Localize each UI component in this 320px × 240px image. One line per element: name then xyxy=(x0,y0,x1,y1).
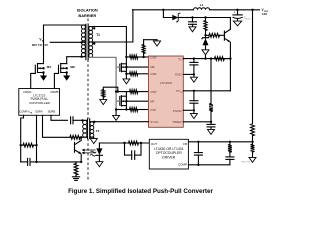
svg-text:SYNC: SYNC xyxy=(150,120,159,124)
transformer T1 core xyxy=(85,24,87,59)
svg-text:T1: T1 xyxy=(96,33,100,37)
ground PGND pin (secondary) xyxy=(193,110,195,113)
wire PGND xyxy=(183,109,194,111)
resistor TIMER xyxy=(210,59,212,104)
wire VIN to T1 center tap xyxy=(50,41,85,43)
svg-text:TIMER: TIMER xyxy=(172,120,182,124)
svg-text:COMP: COMP xyxy=(178,163,187,167)
inductor L1 xyxy=(194,8,210,10)
wire T1 sec bottom (gray) xyxy=(89,57,116,109)
wire T1 sec center tap to VOUT rail xyxy=(89,10,133,42)
svg-text:DRVB: DRVB xyxy=(51,90,59,94)
ground MB source (primary) xyxy=(66,74,68,77)
resistor VCC-PVCC xyxy=(215,57,225,61)
resistor CSE+ pullup xyxy=(143,54,145,58)
svg-text:+: + xyxy=(233,11,235,15)
transistor ME xyxy=(125,57,127,74)
svg-text:FB: FB xyxy=(183,142,187,146)
wire COMP out xyxy=(188,164,230,166)
svg-text:3901 F01: 3901 F01 xyxy=(241,161,251,163)
wire bias supply rail xyxy=(193,17,231,19)
resistor opto emitter xyxy=(75,162,77,164)
wire VOUT to divider xyxy=(252,10,254,124)
transistor MA xyxy=(38,63,44,65)
T2 phasing dots xyxy=(81,119,83,121)
svg-text:SDRA: SDRA xyxy=(35,110,43,114)
zener diode D2 xyxy=(203,37,208,39)
wire comp to opto emitter xyxy=(37,161,82,163)
resistor FB-COMP RC xyxy=(229,142,231,145)
resistor divider top xyxy=(251,124,255,136)
svg-text:12V: 12V xyxy=(262,12,267,16)
ground COUT (secondary) xyxy=(233,21,241,26)
wire opto LED to OUT xyxy=(99,142,149,144)
isolation barrier break marks xyxy=(91,151,97,153)
wire SYNC xyxy=(91,121,149,123)
svg-text:L1: L1 xyxy=(200,3,204,7)
transformer T1 secondary winding xyxy=(89,27,93,31)
wire SDRB to T2 xyxy=(51,115,68,120)
wire T1 primary bottom to MB drain xyxy=(67,57,85,64)
wire SDRA to T2 xyxy=(43,115,70,137)
svg-text:T2: T2 xyxy=(96,129,100,133)
wire CSE+ sense xyxy=(126,56,129,58)
op-amp U3 LT4430 box xyxy=(149,139,188,169)
ground MA source (primary) xyxy=(43,74,45,77)
svg-text:ISOLATION: ISOLATION xyxy=(77,7,98,12)
wire MB gate to DRVB xyxy=(54,73,58,88)
svg-text:ME: ME xyxy=(150,65,155,69)
op-amp U2 LTC3723 box xyxy=(19,89,60,116)
capacitor OUT parallel xyxy=(124,143,126,155)
node zener junction xyxy=(204,34,206,36)
capacitor PVCC bypass xyxy=(193,91,195,101)
ground TIMER cap (secondary) xyxy=(208,129,215,134)
wire CSF+ sense xyxy=(116,91,129,93)
wire VFB pin xyxy=(36,115,38,162)
svg-text:CC: CC xyxy=(180,92,184,94)
ground divider (secondary) xyxy=(249,157,256,162)
ground GND pin (secondary) xyxy=(193,74,195,77)
diode D3 opto LED xyxy=(98,143,100,148)
wire FB xyxy=(188,141,252,143)
opto light arrows xyxy=(82,149,95,151)
wire CSF- sense xyxy=(116,109,129,111)
svg-text:OPTOCOUPLER: OPTOCOUPLER xyxy=(156,151,182,155)
ground T2 (secondary) xyxy=(90,139,97,144)
svg-text:Figure 1. Simplified Isolated: Figure 1. Simplified Isolated Push-Pull … xyxy=(68,188,213,195)
wire MF gate from chip xyxy=(126,100,148,102)
svg-text:LT4430 OR LT1431: LT4430 OR LT1431 xyxy=(154,147,184,151)
ground CSE+ arrow (secondary) xyxy=(156,40,158,42)
svg-text:PGND: PGND xyxy=(173,109,183,113)
svg-text:OUT: OUT xyxy=(246,19,251,21)
transistor MB xyxy=(61,63,67,65)
transformer T2 secondary winding xyxy=(90,122,94,126)
ground opto LED (secondary) xyxy=(96,162,103,167)
wire CSE- sense xyxy=(126,73,129,75)
wire PVCC rail xyxy=(183,90,230,92)
svg-text:BARRIER: BARRIER xyxy=(78,13,96,18)
capacitor bias filter xyxy=(192,18,194,22)
op-amp U1 LTC3901 box xyxy=(149,56,184,127)
svg-text:CONTROLLER: CONTROLLER xyxy=(29,101,51,105)
resistor OUT series xyxy=(129,141,139,145)
transformer T2 core xyxy=(87,119,89,139)
wire T2 sec bottom to ground xyxy=(91,137,94,138)
svg-text:DRIVER: DRIVER xyxy=(162,156,175,160)
svg-text:MF: MF xyxy=(150,100,154,104)
ground bias cap (secondary) xyxy=(189,27,196,32)
wire VCC xyxy=(183,58,230,60)
resistor MF snubber xyxy=(102,90,105,98)
resistor NPN base xyxy=(206,34,210,36)
svg-text:GND: GND xyxy=(175,73,183,77)
ground ME source (secondary) xyxy=(125,74,127,79)
transistor Q2 opto phototransistor xyxy=(74,142,76,152)
svg-text:MB: MB xyxy=(70,65,75,69)
ground zener (secondary) xyxy=(202,50,209,55)
wire VOUT rail right xyxy=(210,9,260,11)
wire TIMER xyxy=(183,121,211,123)
capacitor comp xyxy=(21,161,28,163)
capacitor VCC bypass xyxy=(193,59,195,63)
capacitor COUT xyxy=(237,10,239,15)
transformer T2 primary winding xyxy=(83,120,87,124)
ground MF snubber (secondary) xyxy=(102,97,104,99)
wire MF snubber xyxy=(103,87,118,91)
resistor comp xyxy=(23,143,34,147)
resistor divider bottom xyxy=(252,142,254,144)
capacitor TIMER xyxy=(210,122,212,125)
capacitor FB-COMP RC xyxy=(226,156,234,158)
resistor zener feed xyxy=(205,18,207,21)
svg-text:DRVA: DRVA xyxy=(24,90,32,94)
svg-text:CC: CC xyxy=(180,60,184,62)
svg-text:LTC3901: LTC3901 xyxy=(160,81,173,85)
capacitor SDRB coupling xyxy=(70,117,72,124)
wire ME gate from chip xyxy=(126,66,148,68)
resistor SDRA xyxy=(70,135,80,139)
wire MA gate to DRVA xyxy=(31,73,36,88)
transistor Q1 NPN xyxy=(223,31,225,40)
transistor MF xyxy=(125,92,127,110)
wire GND xyxy=(183,73,194,75)
ground opto (earth bars) xyxy=(72,176,79,178)
capacitor FB-COMP xyxy=(197,142,199,153)
svg-text:36V TO 72V: 36V TO 72V xyxy=(32,43,48,47)
wire COMP pin xyxy=(21,115,24,162)
ground MF leg (secondary) xyxy=(115,110,117,116)
isolation barrier dashed line xyxy=(87,19,89,25)
svg-text:SDRB: SDRB xyxy=(48,110,56,114)
transformer T1 primary winding xyxy=(81,25,85,29)
diode D1 schottky xyxy=(172,15,178,21)
svg-text:OUT: OUT xyxy=(151,142,158,146)
svg-text:COMP: COMP xyxy=(19,110,27,114)
wire VOUT rail left xyxy=(133,9,194,11)
wire T1 primary top to MA drain xyxy=(44,25,85,64)
wire T1 sec top to ME drain xyxy=(89,27,126,58)
T1 phasing dots xyxy=(80,41,82,43)
wire switch node to schottky xyxy=(163,10,171,18)
